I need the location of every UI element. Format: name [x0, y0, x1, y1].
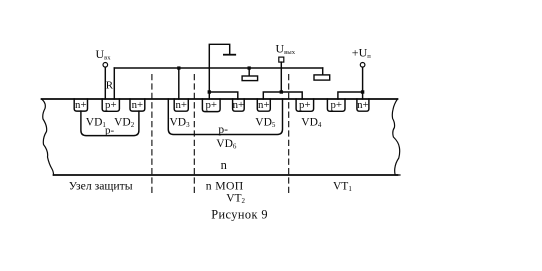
- svg-text:Рисунок 9: Рисунок 9: [211, 207, 268, 221]
- wire bus down to VD3 n+ region: [178, 68, 180, 99]
- svg-text:R: R: [106, 80, 114, 92]
- svg-text:p+: p+: [205, 99, 217, 111]
- n+ region 7 (drain VT2): [257, 99, 270, 111]
- ground: [209, 44, 229, 68]
- boundary dashed line 2: [193, 75, 195, 196]
- svg-text:p+: p+: [330, 99, 342, 111]
- junction on bus to VD3 n+: [177, 66, 180, 69]
- p- well 2 (VD6): [168, 99, 282, 135]
- svg-text:Узел защиты: Узел защиты: [69, 180, 133, 193]
- wire Uvyh to VD4 p+: [281, 92, 302, 99]
- svg-text:p+: p+: [299, 99, 311, 111]
- p+ region 5 (ground): [202, 99, 220, 112]
- resistor R wire (Uvx to p+ region): [104, 67, 106, 99]
- wire +Up down to n+ region: [362, 67, 364, 99]
- substrate left wavy break edge: [42, 99, 54, 175]
- svg-text:p-: p-: [105, 125, 115, 137]
- wire bus corner down to p+ region: [113, 68, 115, 99]
- substrate surface line: [42, 98, 398, 100]
- gate electrode VT1: [314, 75, 330, 80]
- p+ region 9 (source VT1): [327, 99, 345, 111]
- node +Up terminal circle: [360, 63, 365, 68]
- svg-text:p-: p-: [218, 124, 228, 136]
- wire branch to source n+: [209, 92, 238, 99]
- n+ region 6 (source VT2): [233, 99, 245, 111]
- wire top bus: [114, 67, 322, 69]
- boundary dashed line 3: [288, 75, 290, 196]
- substrate right wavy break edge: [392, 99, 400, 175]
- ground bar: [224, 54, 235, 56]
- svg-text:n+: n+: [258, 99, 270, 111]
- n+ region 4 (VD3): [174, 99, 188, 111]
- gate electrode VT2: [242, 76, 258, 81]
- svg-text:n МОП: n МОП: [206, 180, 244, 193]
- svg-text:n+: n+: [75, 99, 87, 111]
- svg-text:n+: n+: [132, 99, 144, 111]
- p- well 1 (protection node): [81, 111, 139, 136]
- svg-text:n+: n+: [175, 99, 187, 111]
- p+ region 2: [102, 99, 119, 111]
- wire bus end down to gate VT1: [322, 68, 324, 75]
- svg-text:n: n: [221, 158, 228, 172]
- boundary dashed line 1: [151, 75, 153, 196]
- n+ region 3: [130, 99, 145, 111]
- n+ region 1: [74, 99, 87, 111]
- junction Uvyh: [280, 90, 283, 93]
- substrate bottom line: [54, 174, 398, 176]
- svg-text:n+: n+: [233, 99, 245, 111]
- node Uvx terminal circle: [103, 63, 108, 68]
- wire ground line down to p+ region: [208, 68, 210, 99]
- wire +Up to p+ source VT1: [338, 92, 363, 99]
- wire Uvyh to drain n+: [263, 92, 281, 99]
- wire stub to gate VT2: [248, 68, 250, 76]
- p+ region 8 (VD4): [296, 99, 314, 111]
- junction +Up: [361, 90, 364, 93]
- svg-text:p+: p+: [105, 99, 117, 111]
- junction ground branch: [208, 90, 211, 93]
- svg-text:n+: n+: [357, 99, 369, 111]
- n+ region 10 (+Up): [357, 99, 369, 111]
- junction on bus to gate VT2: [248, 66, 251, 69]
- wire Uvyh down: [280, 62, 282, 92]
- node Uvyh terminal square: [279, 57, 284, 62]
